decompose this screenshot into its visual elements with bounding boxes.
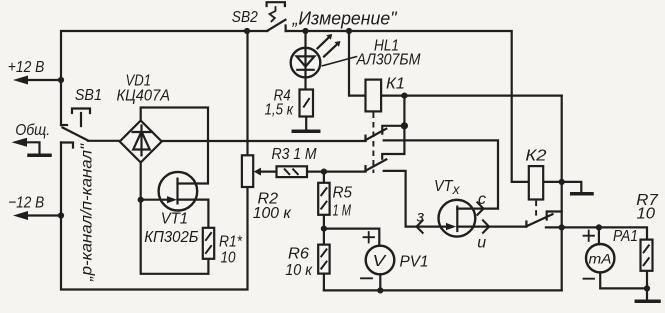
svg-text:„р-канал/п-канал": „р-канал/п-канал" — [79, 142, 96, 282]
svg-text:10 к: 10 к — [285, 262, 313, 279]
svg-text:КЦ407А: КЦ407А — [117, 88, 171, 105]
svg-text:и: и — [477, 235, 486, 252]
svg-text:АЛ307БМ: АЛ307БМ — [356, 52, 421, 69]
svg-text:Общ.: Общ. — [15, 122, 50, 139]
svg-text:SB2: SB2 — [232, 9, 258, 26]
svg-text:„Измерение": „Измерение" — [292, 9, 399, 29]
svg-text:R3 1 М: R3 1 М — [272, 146, 318, 163]
svg-text:R6: R6 — [288, 246, 309, 263]
svg-text:R1*: R1* — [219, 234, 243, 251]
svg-text:100 к: 100 к — [253, 205, 292, 222]
svg-text:К1: К1 — [386, 75, 405, 92]
svg-text:VT: VT — [434, 178, 454, 195]
svg-text:−12 В: −12 В — [8, 195, 44, 212]
svg-text:SB1: SB1 — [75, 87, 102, 104]
svg-text:10: 10 — [221, 250, 236, 267]
svg-text:1 М: 1 М — [333, 203, 352, 220]
svg-text:К2: К2 — [525, 147, 546, 164]
svg-text:КП302Б: КП302Б — [144, 229, 198, 246]
svg-text:+12 В: +12 В — [8, 59, 45, 76]
svg-text:VT1: VT1 — [161, 211, 188, 228]
svg-text:с: с — [478, 191, 486, 208]
svg-text:V: V — [373, 253, 387, 270]
svg-text:PA1: PA1 — [613, 228, 638, 245]
svg-text:PV1: PV1 — [400, 253, 429, 270]
svg-text:з: з — [416, 209, 424, 226]
svg-text:10: 10 — [637, 206, 656, 223]
svg-text:х: х — [452, 182, 461, 197]
svg-text:mA: mA — [589, 252, 612, 267]
svg-text:1,5 к: 1,5 к — [265, 102, 295, 119]
svg-text:R5: R5 — [333, 185, 353, 202]
